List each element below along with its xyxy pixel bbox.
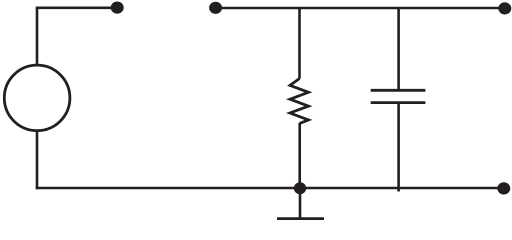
node: open terminal top-middle (dot): [209, 2, 222, 14]
wire: bottom rail: [36, 187, 504, 190]
wire: resistor bottom lead: [298, 123, 301, 188]
node: open terminal top-left (dot): [111, 2, 124, 14]
node: top-right terminal (dot): [498, 2, 511, 14]
resistor R1 (zigzag): [290, 79, 309, 124]
node: bottom-right terminal (dot): [497, 182, 510, 194]
wire: source bottom lead: [36, 132, 39, 190]
source circle U1: [4, 65, 70, 131]
node: junction at resistor/ground (dot): [294, 182, 306, 194]
wire: top-left horizontal to open terminal: [36, 7, 117, 10]
wire: source top lead (vertical, x=37): [36, 8, 39, 65]
wire: resistor top lead: [298, 8, 301, 79]
wire: capacitor bottom lead: [397, 104, 400, 192]
wire: capacitor top lead: [397, 8, 400, 90]
capacitor C1 (two plates): [371, 90, 426, 102]
wire: top rail: [216, 7, 505, 10]
wire: ground stub: [299, 188, 302, 219]
ground: [277, 217, 324, 220]
